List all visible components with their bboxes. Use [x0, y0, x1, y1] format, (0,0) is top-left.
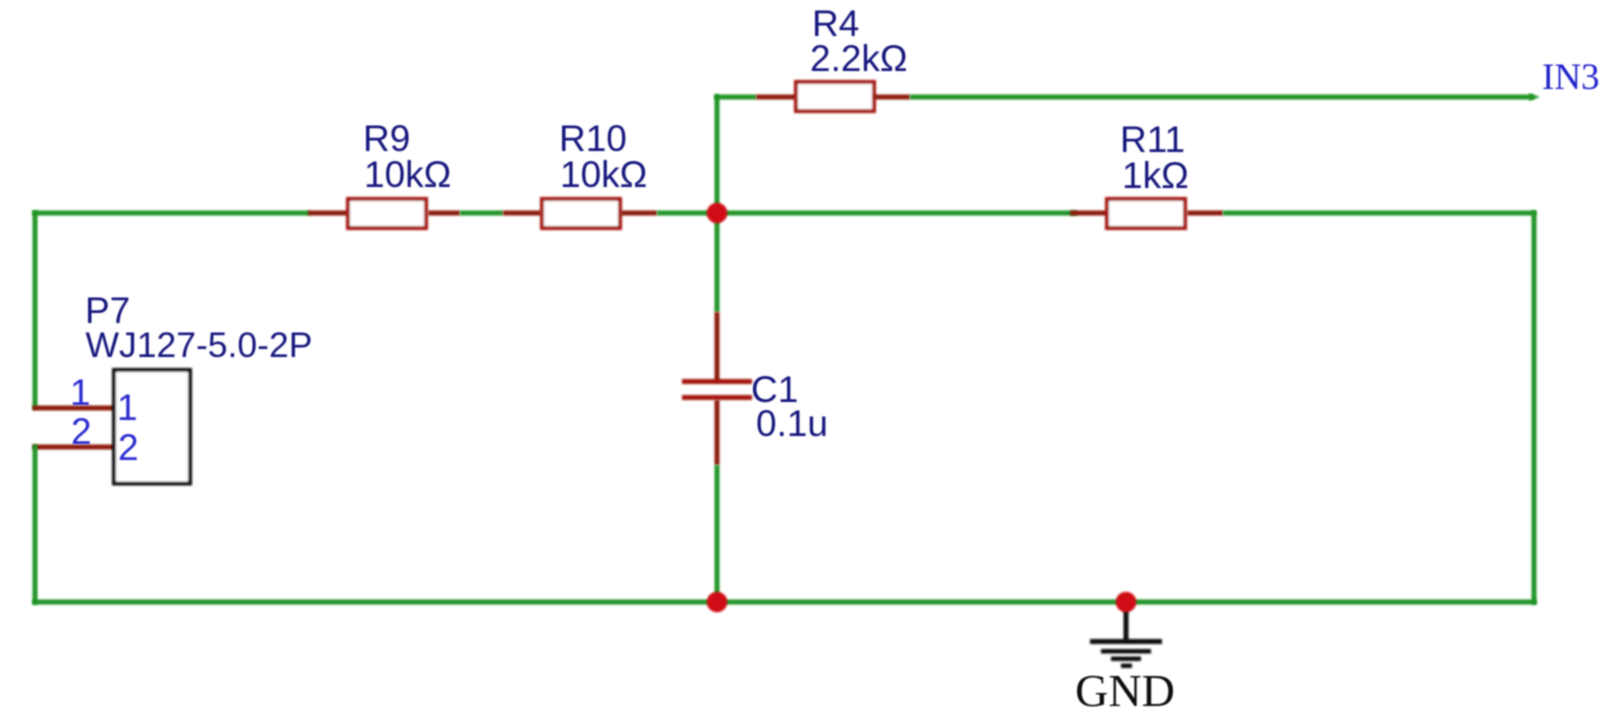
wire top green R4 to IN3	[910, 95, 1534, 100]
wire red stub R4 right	[874, 95, 910, 100]
svg-text:R10: R10	[559, 118, 627, 159]
wire mid horizontal net left segment	[33, 211, 311, 216]
svg-text:2.2kΩ: 2.2kΩ	[810, 38, 908, 79]
junction dot capacitor bottom node	[707, 592, 728, 613]
wire red stub R10 left	[503, 211, 541, 216]
resistor R10	[542, 199, 620, 228]
wire capacitor lead red upper	[715, 312, 720, 382]
wire capacitor lead red lower	[715, 400, 720, 465]
junction dot mid node	[707, 203, 728, 224]
wire left vertical upper segment	[33, 211, 38, 410]
resistor R11	[1107, 199, 1185, 228]
wire right vertical	[1532, 211, 1537, 605]
svg-text:2: 2	[71, 411, 92, 452]
capacitor C1 bottom plate	[682, 395, 752, 400]
svg-text:IN3: IN3	[1542, 57, 1600, 98]
svg-text:1: 1	[70, 372, 91, 413]
svg-text:10kΩ: 10kΩ	[364, 154, 451, 195]
wire top vertical junction to top net	[715, 95, 720, 215]
svg-text:WJ127-5.0-2P: WJ127-5.0-2P	[86, 325, 313, 365]
wire mid green R10 to junction	[657, 211, 1077, 216]
wire pin stub P7 pin1	[33, 406, 117, 411]
wire capacitor branch green upper	[715, 213, 720, 312]
svg-text:0.1u: 0.1u	[756, 403, 828, 444]
arrow head at IN3	[1529, 93, 1540, 101]
wire red stub R11 left	[1070, 211, 1107, 216]
wire capacitor branch green lower	[715, 465, 720, 604]
svg-text:GND: GND	[1075, 665, 1175, 714]
svg-text:R9: R9	[363, 118, 410, 159]
svg-text:2: 2	[118, 427, 139, 468]
svg-text:1: 1	[117, 387, 138, 428]
wire top green left of R4	[715, 95, 757, 100]
svg-text:10kΩ: 10kΩ	[560, 154, 647, 195]
svg-text:1kΩ: 1kΩ	[1122, 155, 1189, 196]
wire red stub R11 right	[1187, 211, 1223, 216]
wire left vertical lower segment	[33, 445, 38, 605]
wire red stub R9 right	[428, 211, 460, 216]
wire red stub R4 left	[756, 95, 796, 100]
junction dot ground node	[1116, 592, 1137, 613]
wire mid green R11 to right vertical	[1223, 211, 1536, 216]
wire bottom horizontal	[33, 600, 1537, 605]
svg-text:R11: R11	[1120, 119, 1185, 160]
ground bar 2	[1101, 649, 1151, 654]
connector P7 body	[114, 370, 190, 484]
capacitor C1 top plate	[682, 379, 752, 384]
ground bar 1	[1090, 639, 1162, 644]
wire pin stub P7 pin2	[33, 445, 117, 450]
wire red stub R9 left	[308, 211, 348, 216]
wire red stub R10 right	[621, 211, 657, 216]
resistor R4	[796, 82, 874, 111]
wire mid green between R9 R10	[460, 211, 503, 216]
resistor R9	[348, 199, 426, 228]
ground lead vertical	[1124, 602, 1129, 641]
ground bar 4	[1121, 664, 1132, 669]
ground bar 3	[1111, 657, 1141, 662]
